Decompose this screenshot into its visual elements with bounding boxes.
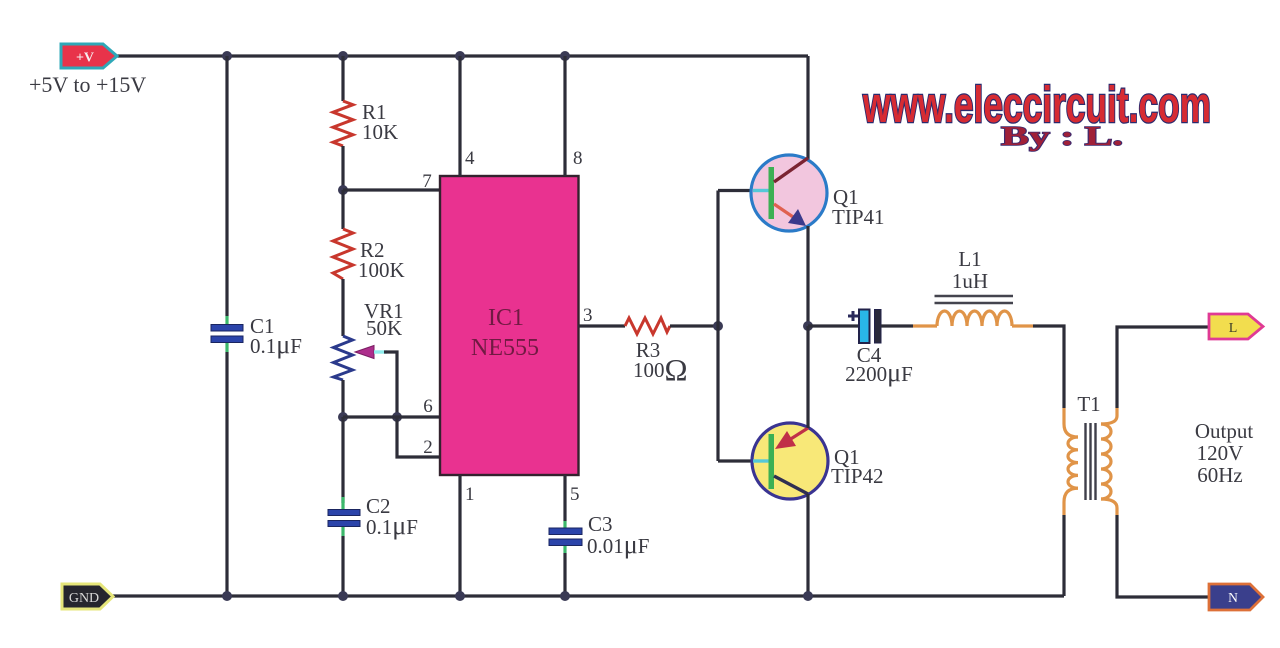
- resistor R3: [625, 318, 670, 334]
- pin 1 label: [465, 484, 475, 505]
- node rail C2: [338, 591, 348, 601]
- node base bus: [713, 321, 723, 331]
- svg-text:5: 5: [570, 484, 580, 505]
- node Q2 / rail: [803, 591, 813, 601]
- wire base bus vertical: [716, 191, 719, 462]
- svg-text:L1: L1: [958, 247, 981, 271]
- svg-text:6: 6: [423, 396, 433, 417]
- capacitor C2: [328, 510, 360, 527]
- svg-text:IC1: IC1: [488, 305, 524, 331]
- pin 4 label: [465, 148, 475, 169]
- svg-text:100Ω: 100Ω: [633, 352, 688, 387]
- svg-text:8: 8: [573, 148, 583, 169]
- svg-text:7: 7: [422, 171, 432, 192]
- wire top rail: [117, 54, 808, 57]
- label VR1 value: [364, 299, 404, 340]
- wire bottom rail: [113, 594, 1064, 597]
- svg-text:TIP41: TIP41: [832, 205, 885, 229]
- line flag L: [1209, 314, 1263, 339]
- svg-text:120V: 120V: [1197, 441, 1244, 465]
- wire pin 3: [578, 324, 625, 327]
- pin 3 label: [583, 305, 593, 326]
- svg-text:1: 1: [465, 484, 475, 505]
- svg-text:By : L.: By : L.: [1001, 121, 1123, 151]
- label R1 value: [362, 100, 398, 144]
- wire secondary bottom to N: [1117, 515, 1209, 597]
- label T1: [1077, 392, 1100, 416]
- node R1/R2/pin7: [338, 185, 348, 195]
- transformer T1: [1064, 408, 1117, 596]
- wire node to C4: [808, 324, 859, 327]
- node VR1 bottom: [338, 412, 348, 422]
- node top rail / pin8: [560, 51, 570, 61]
- wire pin 5 / C3 branch: [563, 475, 566, 596]
- wire R2 top stub: [341, 190, 344, 229]
- wire Q2 top (collector bus): [806, 326, 809, 428]
- node emitter / C4: [803, 321, 813, 331]
- pin 8 label: [573, 148, 583, 169]
- inductor L1: [935, 296, 1014, 326]
- wire R3 to base bus: [670, 324, 718, 327]
- node top rail / R1: [338, 51, 348, 61]
- node rail pin1: [455, 591, 465, 601]
- svg-text:1uH: 1uH: [952, 269, 988, 293]
- wire Q1 base lead: [718, 189, 753, 192]
- label supply range: [29, 72, 146, 97]
- wire pin 7: [343, 188, 440, 191]
- label Q1 TIP41: [832, 185, 885, 229]
- label C2 value: [366, 494, 418, 540]
- svg-text:50K: 50K: [366, 316, 402, 340]
- node rail pin5: [560, 591, 570, 601]
- capacitor C3: [549, 528, 582, 546]
- capacitor C4 polarized: [848, 310, 881, 344]
- watermark author: [1001, 121, 1123, 151]
- svg-text:+5V to +15V: +5V to +15V: [29, 72, 146, 97]
- svg-text:2200μF: 2200μF: [845, 358, 913, 387]
- label IC1 NE555: [471, 305, 539, 361]
- node top rail / C1: [222, 51, 232, 61]
- wire pin 1: [458, 475, 461, 596]
- neutral flag N: [1209, 584, 1263, 610]
- label L1 value: [952, 247, 988, 293]
- label C1 value: [250, 314, 302, 359]
- wire Q2 bottom to rail: [806, 494, 809, 596]
- svg-text:10K: 10K: [362, 120, 398, 144]
- svg-text:NE555: NE555: [471, 335, 539, 361]
- wire R2 to VR1: [341, 279, 344, 336]
- label C3 value: [587, 512, 649, 559]
- svg-text:GND: GND: [69, 591, 99, 606]
- pin 7 label: [422, 171, 432, 192]
- wire secondary top to L: [1117, 327, 1209, 408]
- svg-text:T1: T1: [1077, 392, 1100, 416]
- capacitor C1: [211, 325, 243, 343]
- label output spec: [1195, 419, 1254, 487]
- wire pin 2 link: [397, 417, 440, 457]
- wire C4 to L1: [881, 324, 937, 327]
- power flag +V: [61, 44, 117, 68]
- op IC1 NE555 body: [440, 176, 579, 475]
- pin 5 label: [570, 484, 580, 505]
- svg-text:3: 3: [583, 305, 593, 326]
- svg-text:0.1μF: 0.1μF: [366, 511, 418, 540]
- pin 2 label: [423, 437, 433, 458]
- node wiper/pin6: [392, 412, 402, 422]
- svg-text:4: 4: [465, 148, 475, 169]
- wire pin 8: [563, 56, 566, 176]
- watermark site: [862, 76, 1211, 133]
- wire Q2 base lead: [718, 459, 753, 462]
- label R2 value: [358, 238, 405, 282]
- pin 6 label: [423, 396, 433, 417]
- svg-text:0.1μF: 0.1μF: [250, 330, 302, 359]
- wire pin 4: [458, 56, 461, 176]
- resistor R1: [333, 101, 353, 146]
- label C4 value: [845, 343, 913, 387]
- wire R1 to node: [341, 146, 344, 190]
- resistor R2: [333, 229, 353, 279]
- wire Q1 collector drop: [806, 56, 809, 160]
- ground flag GND: [62, 584, 113, 609]
- node rail C1: [222, 591, 232, 601]
- label R3 value: [633, 338, 688, 387]
- svg-text:Output: Output: [1195, 419, 1254, 443]
- wire VR1 to pin6 node: [341, 380, 344, 417]
- svg-text:60Hz: 60Hz: [1197, 463, 1243, 487]
- wire L1 to T1: [1012, 326, 1064, 408]
- node top rail / pin4: [455, 51, 465, 61]
- label Q2 TIP42: [831, 445, 884, 488]
- potentiometer VR1: [334, 336, 398, 417]
- wire Q1 emitter down: [806, 226, 809, 326]
- wire C2 branch: [341, 417, 344, 596]
- svg-text:0.01μF: 0.01μF: [587, 530, 649, 559]
- svg-text:2: 2: [423, 437, 433, 458]
- wire R1 top stub: [341, 56, 344, 101]
- svg-text:TIP42: TIP42: [831, 464, 884, 488]
- svg-text:100K: 100K: [358, 258, 405, 282]
- svg-text:L: L: [1229, 321, 1238, 336]
- svg-text:N: N: [1228, 590, 1238, 605]
- transistor Q2 TIP42: [752, 423, 828, 499]
- wire pin 6: [343, 415, 440, 418]
- transistor Q1 TIP41: [751, 155, 827, 231]
- svg-text:+V: +V: [76, 51, 94, 66]
- wire C1 branch: [225, 56, 228, 596]
- svg-text:C3: C3: [588, 512, 613, 536]
